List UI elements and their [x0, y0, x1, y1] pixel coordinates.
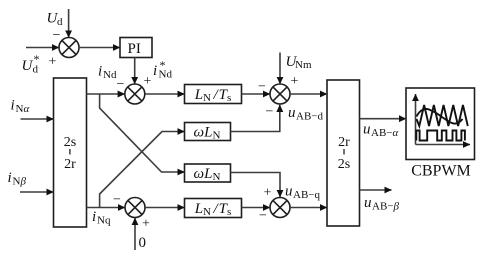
svg-text:AB−β: AB−β: [372, 201, 399, 213]
svg-text:Nq: Nq: [97, 215, 111, 227]
svg-text:ωLN: ωLN: [194, 125, 221, 142]
svg-text:+: +: [142, 217, 150, 232]
svg-text:AB−q: AB−q: [293, 189, 320, 201]
svg-text:−: −: [53, 28, 61, 43]
svg-text:LN/Ts: LN/Ts: [194, 201, 232, 218]
svg-text:2r: 2r: [64, 157, 76, 172]
svg-text:i: i: [8, 170, 12, 186]
svg-text:0: 0: [139, 235, 147, 251]
svg-text:AB−α: AB−α: [371, 127, 398, 139]
svg-text:Nm: Nm: [295, 59, 312, 71]
svg-text:−: −: [258, 80, 266, 95]
svg-text:+: +: [291, 74, 299, 89]
svg-text:*: *: [34, 52, 40, 66]
svg-text:+: +: [144, 74, 152, 89]
svg-text:2s: 2s: [338, 157, 350, 172]
svg-text:+: +: [264, 186, 272, 201]
svg-text:i: i: [98, 64, 102, 80]
svg-text:−: −: [259, 209, 267, 224]
svg-text:i: i: [11, 98, 15, 114]
svg-text:Nβ: Nβ: [13, 176, 27, 188]
svg-text:−: −: [266, 105, 274, 120]
svg-text:2s: 2s: [64, 135, 76, 150]
svg-text:i: i: [153, 63, 157, 79]
svg-text:PI: PI: [128, 41, 141, 57]
svg-text:u: u: [288, 105, 296, 121]
svg-text:Nα: Nα: [16, 103, 30, 115]
svg-text:−: −: [113, 193, 121, 208]
svg-text:LN/Ts: LN/Ts: [194, 87, 232, 104]
svg-text:u: u: [363, 122, 371, 138]
svg-text:−: −: [117, 77, 125, 92]
svg-text:2r: 2r: [338, 135, 350, 150]
svg-text:*: *: [160, 58, 166, 72]
svg-text:CBPWM: CBPWM: [411, 163, 471, 180]
svg-text:u: u: [364, 195, 372, 211]
svg-text:u: u: [285, 184, 293, 200]
svg-text:Nd: Nd: [103, 69, 117, 81]
svg-text:AB−d: AB−d: [296, 111, 323, 123]
svg-text:i: i: [92, 209, 96, 225]
svg-text:ωLN: ωLN: [194, 166, 221, 183]
svg-text:+: +: [49, 55, 57, 70]
svg-text:d: d: [57, 16, 63, 28]
